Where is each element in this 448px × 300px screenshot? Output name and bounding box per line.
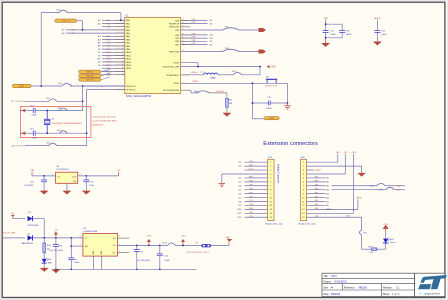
junction +3V3 first <box>148 245 150 247</box>
wire bottom ground rail <box>56 268 197 270</box>
svg-text:NRST: NRST <box>193 81 199 83</box>
junction NRST top <box>252 82 254 84</box>
wire A5 to PB6 <box>332 185 377 187</box>
svg-text:17: 17 <box>122 70 124 72</box>
wire CN4 pin15 D13 <box>307 216 362 218</box>
wire net PB4 <box>181 34 208 36</box>
tag MCO <box>12 84 32 87</box>
svg-text:(A MU0527): (A MU0527) <box>93 124 104 127</box>
capacitor C19 <box>85 176 87 180</box>
junction C6 branch <box>70 237 72 239</box>
svg-text:PA12: PA12 <box>249 176 253 179</box>
svg-text:3: 3 <box>52 174 53 176</box>
pin PF0/PC14 stub <box>83 85 125 87</box>
svg-text:+5V: +5V <box>54 230 58 232</box>
tag VCP_TX <box>55 19 77 22</box>
svg-text:Size:: Size: <box>324 288 329 290</box>
junction MCO/SB17 <box>40 85 42 87</box>
pin row PA6 left wire <box>102 39 125 41</box>
pin row PA8 left wire <box>102 45 125 47</box>
wire VCP_TX to PA3 row <box>77 20 83 22</box>
wire C14 to bottom rail <box>55 246 57 269</box>
svg-text:PB8/VOS3: PB8/VOS3 <box>169 51 180 53</box>
svg-text:SB14: SB14 <box>225 48 230 50</box>
svg-text:11: 11 <box>122 51 124 53</box>
tag NRST <box>264 117 280 120</box>
svg-text:Sheet:: Sheet: <box>383 293 390 296</box>
pin row extra left wire <box>102 71 125 73</box>
svg-text:PF0/PC14: PF0/PC14 <box>126 86 136 88</box>
solder bridge SB17 <box>59 10 67 12</box>
ground bottom rail <box>51 269 60 273</box>
pin NC stub <box>118 252 130 254</box>
wire CN3 pin 15 <box>245 216 268 218</box>
wire R22 to LD2 <box>43 253 45 259</box>
svg-text:+5V_ST_LINK: +5V_ST_LINK <box>3 232 17 234</box>
wire EN link <box>71 245 83 247</box>
svg-text:BOOT0/PB8-PB0: BOOT0/PB8-PB0 <box>163 90 180 92</box>
svg-text:C11: C11 <box>330 31 333 33</box>
junction D3/R22 <box>43 237 45 239</box>
svg-text:100nF: 100nF <box>164 260 170 262</box>
svg-text:PG: PG <box>113 238 116 240</box>
regulator U4 <box>56 172 78 183</box>
svg-text:C12: C12 <box>30 106 33 108</box>
svg-text:10uF: 10uF <box>89 185 94 187</box>
svg-text:PB6: PB6 <box>397 185 401 187</box>
wire CN3 pin 6 <box>245 181 268 183</box>
svg-text:PA12: PA12 <box>126 58 132 61</box>
pin row PA13 left wire <box>102 61 125 63</box>
wire net PB3 to LED <box>181 29 223 31</box>
svg-text:D11: D11 <box>210 38 214 40</box>
svg-text:4.7pF: 4.7pF <box>32 138 38 140</box>
svg-text:8: 8 <box>123 41 124 43</box>
capacitor C15 <box>267 101 269 106</box>
svg-text:100nF: 100nF <box>330 34 336 36</box>
svg-text:Revision:: Revision: <box>383 288 393 290</box>
wire C10 to rail <box>159 256 161 270</box>
svg-text:100nF: 100nF <box>381 34 387 36</box>
svg-text:PA1: PA1 <box>315 199 318 202</box>
svg-text:10uF/25V: 10uF/25V <box>24 185 33 187</box>
pin row PA12 left wire <box>102 58 125 60</box>
capacitor C11 <box>323 30 329 32</box>
svg-text:PA9: PA9 <box>249 160 252 163</box>
solder bridge SB16 <box>377 183 385 185</box>
svg-text:STPS2L30A: STPS2L30A <box>27 224 38 227</box>
wire cap group bottom link <box>325 32 327 37</box>
capacitor C14b <box>374 30 380 32</box>
ground AVDD cap <box>373 42 382 46</box>
junction VDD <box>197 66 199 68</box>
wire CN3 pin 14 <box>245 212 268 214</box>
svg-text:C13: C13 <box>346 31 349 33</box>
junction C18 <box>43 175 45 177</box>
svg-text:NRST: NRST <box>316 170 322 172</box>
wire net VDD rail <box>181 62 199 64</box>
svg-text:2: 2 <box>123 22 124 24</box>
svg-text:SB4: SB4 <box>58 83 62 85</box>
svg-text:SB6: SB6 <box>46 98 50 100</box>
wire NRST net left riser <box>252 83 254 119</box>
red option box <box>20 106 91 137</box>
svg-text:PA10: PA10 <box>126 51 132 54</box>
svg-text:PF0 /PC14: PF0 /PC14 <box>16 101 25 103</box>
wire CN3 pin 10 <box>245 197 268 199</box>
solder bridge SB14 <box>223 49 239 51</box>
svg-text:Vout: Vout <box>72 176 76 179</box>
svg-text:closed for U01, U05, U410: closed for U01, U05, U410 <box>93 117 117 119</box>
wire CN4 pin 12 A0 <box>307 204 326 206</box>
svg-text:PB7: PB7 <box>397 189 401 191</box>
wire U4 out <box>78 175 119 177</box>
svg-text:100nF: 100nF <box>346 34 352 36</box>
junction cap row left <box>252 102 254 104</box>
wire SWCLK to pin <box>101 73 110 75</box>
svg-text:PA13: PA13 <box>126 61 132 64</box>
svg-text:MCO: MCO <box>19 86 24 88</box>
ST logo <box>418 275 447 289</box>
wire BOOT0 down <box>226 93 228 99</box>
svg-text:1: 1 <box>80 244 81 246</box>
wire VIN to U4 <box>32 175 56 177</box>
svg-text:NX3215SA-32.768K-EXS00A-MU0052: NX3215SA-32.768K-EXS00A-MU00527 <box>52 122 82 125</box>
junction PA3 <box>82 29 84 31</box>
svg-text:VDD: VDD <box>226 237 231 239</box>
wire CN4 pin1 VIN <box>307 161 338 163</box>
wire CN4 pin 8 A4 <box>307 189 326 191</box>
off-sheet arrow OSC_OUT <box>21 131 26 135</box>
pin row PA11 left wire <box>102 55 125 57</box>
svg-text:VIN: VIN <box>336 152 340 154</box>
capacitor C6 <box>68 257 74 259</box>
svg-text:SB8: SB8 <box>46 143 50 145</box>
svg-text:NUCLEO32: NUCLEO32 <box>335 281 348 283</box>
wire CN3 pin 8 <box>245 189 268 191</box>
junction crystal row2 <box>46 132 48 134</box>
pin row PA14 left wire <box>102 64 125 66</box>
inductor L1 BEAD <box>204 73 218 75</box>
svg-text:Reference:: Reference: <box>344 287 356 290</box>
svg-text:AVDD: AVDD <box>357 196 363 199</box>
off-sheet connector arrow PB3 <box>259 28 267 32</box>
svg-text:1uF_X5R_0603: 1uF_X5R_0603 <box>137 260 150 262</box>
junction C9 top <box>136 245 138 247</box>
svg-text:PB1: PB1 <box>249 192 253 194</box>
svg-text:Extension connectors: Extension connectors <box>263 141 318 147</box>
solder bridge SB19 <box>234 72 242 74</box>
svg-text:VIN: VIN <box>30 170 34 172</box>
svg-text:14: 14 <box>122 61 124 63</box>
svg-text:VO: VO <box>113 245 116 247</box>
junction EN <box>70 245 72 247</box>
svg-text:SWDIO: SWDIO <box>86 72 93 74</box>
svg-text:SB16: SB16 <box>370 185 375 187</box>
svg-text:+3V3: +3V3 <box>146 236 152 238</box>
wire net PB6 <box>181 40 208 42</box>
svg-text:VDDA/VREF+: VDDA/VREF+ <box>166 74 180 77</box>
junction rail C14 <box>55 269 57 271</box>
ground at button <box>286 103 288 106</box>
resistor R31 <box>226 99 229 108</box>
svg-text:PA5: PA5 <box>315 187 318 190</box>
solder bridge SB on VO <box>168 243 176 245</box>
pin row PA1 left wire <box>102 23 125 25</box>
svg-text:100nF: 100nF <box>266 108 272 110</box>
svg-text:A1: A1 <box>325 200 328 203</box>
svg-text:BOOT0: BOOT0 <box>216 91 224 93</box>
svg-text:GND: GND <box>101 250 103 255</box>
svg-text:SB19: SB19 <box>232 71 237 73</box>
wire CN4 pin4 +5V <box>307 173 346 175</box>
solder bridge SB8 <box>49 143 57 145</box>
wire to R23 <box>362 248 372 250</box>
wire LED anode up <box>385 232 387 238</box>
capacitor C13b <box>339 30 345 32</box>
wire after L1 <box>218 74 234 76</box>
wire net PB1 <box>181 23 208 25</box>
svg-text:C14: C14 <box>381 31 384 33</box>
title block logo divider <box>414 273 416 296</box>
junction rail C10 <box>159 269 161 271</box>
junction PF1 riser <box>86 132 88 134</box>
ground under R31 <box>223 113 232 117</box>
svg-text:RED: RED <box>48 262 53 264</box>
wire CN3 pin 13 <box>245 208 268 210</box>
svg-text:GND: GND <box>93 250 95 255</box>
svg-text:7: 7 <box>123 38 124 40</box>
svg-text:PB5: PB5 <box>249 212 253 214</box>
svg-text:MCU_32pinsLQFP32: MCU_32pinsLQFP32 <box>126 94 151 98</box>
wire cap group top link <box>326 23 343 25</box>
wire R31 to ground <box>226 107 228 113</box>
diode D3 <box>28 216 33 221</box>
junction +5V arrow <box>55 237 57 239</box>
wire SWDIO to pin <box>101 70 110 72</box>
svg-text:SB18: SB18 <box>162 243 167 245</box>
junction +3V3 second <box>182 245 184 247</box>
ground CN3 <box>219 182 225 184</box>
junction cap group top <box>325 23 327 25</box>
wire LD2 to ground <box>43 263 45 268</box>
solder bridge SB15 vertical <box>359 230 361 235</box>
svg-text:NRST: NRST <box>249 169 255 171</box>
ground CN4 <box>357 173 366 177</box>
ground LD2 <box>40 268 49 272</box>
wire net PB8/VOS3 <box>181 51 223 53</box>
pin row PA3 left wire <box>66 29 125 31</box>
connector CN3 <box>268 159 274 220</box>
tag SWDIO <box>78 70 101 73</box>
wire net PB5 <box>181 37 208 39</box>
svg-text:SB1: SB1 <box>194 91 197 93</box>
svg-text:PA6: PA6 <box>315 183 318 186</box>
capacitor C18 <box>43 176 45 180</box>
wire C6/EN branch <box>70 238 72 258</box>
svg-text:15: 15 <box>122 64 124 66</box>
wire R23 to LED <box>377 248 386 250</box>
capacitor C12 <box>32 108 34 113</box>
ground C19 <box>82 191 91 195</box>
off-sheet arrow OSC_IN <box>21 109 26 113</box>
svg-text:PA0: PA0 <box>315 203 318 206</box>
svg-text:MB1180: MB1180 <box>359 288 368 290</box>
wire net PF0 row <box>25 100 49 102</box>
svg-text:JP1: JP1 <box>195 243 198 245</box>
power flag +5V out <box>118 172 120 176</box>
wire C19 to ground <box>85 182 87 191</box>
wire JP1 to VDD flag <box>211 244 229 246</box>
svg-text:PB6: PB6 <box>249 188 253 190</box>
svg-text:SB3: SB3 <box>363 233 367 235</box>
pin row PA15 left wire <box>102 67 125 69</box>
svg-text:12: 12 <box>122 54 124 56</box>
off-sheet connector arrow PB8 <box>259 50 267 54</box>
wire net PB0 <box>181 19 208 21</box>
svg-text:SB17: SB17 <box>56 10 61 12</box>
ground U4 tab <box>62 191 71 195</box>
power +3V3 second <box>182 242 184 245</box>
wire button top <box>253 82 288 84</box>
svg-text:PA4: PA4 <box>315 191 318 194</box>
wire SB17 drop to PA0 <box>120 13 122 21</box>
svg-text:Project:: Project: <box>324 280 332 283</box>
svg-text:Vin: Vin <box>57 177 60 179</box>
power +3V3 first <box>148 242 150 245</box>
svg-text:+5V: +5V <box>117 170 121 172</box>
wire VCP_RX to pin <box>101 77 110 80</box>
pin row PA0 left wire <box>102 19 125 21</box>
solder bridge SB15 <box>223 28 239 30</box>
svg-text:Header 15X1_male: Header 15X1_male <box>298 223 316 225</box>
LED LD3 green <box>383 239 388 243</box>
pin row PA10 left wire <box>102 51 125 53</box>
junction C10 top <box>159 245 161 247</box>
svg-text:AVDD: AVDD <box>375 17 381 20</box>
wire CN3 pin 3 <box>245 169 268 171</box>
pin PF1/PC15 stub <box>87 89 125 91</box>
svg-text:PB3: PB3 <box>315 216 319 218</box>
wire CN4 pin13 AREF <box>307 208 358 210</box>
wire CN3 GND pin4 <box>222 173 268 175</box>
svg-text:PA10: PA10 <box>249 164 253 167</box>
svg-text:BAT60JFILM: BAT60JFILM <box>22 242 33 245</box>
wire net SB17 vertical <box>40 13 42 86</box>
junction VDD right <box>259 66 261 68</box>
wire CN4 pin14 +3V3 <box>307 212 354 214</box>
svg-text:SB9: SB9 <box>57 107 61 109</box>
junction C19 <box>85 175 87 177</box>
wire CN3 pin 5 <box>245 177 268 179</box>
svg-text:10: 10 <box>122 48 124 50</box>
solder bridge SB on row2 <box>59 131 67 133</box>
svg-text:18: 18 <box>122 73 124 75</box>
pin row PA9 left wire <box>102 48 125 50</box>
power AVDD tap <box>357 200 359 210</box>
wire ST-LINK 5V row <box>3 237 25 239</box>
svg-text:AREF: AREF <box>325 208 332 211</box>
wire net PB7 <box>181 44 208 46</box>
pin PG stub <box>118 237 130 239</box>
svg-text:8: 8 <box>80 236 81 238</box>
svg-text:6: 6 <box>123 35 124 37</box>
svg-text:1: 1 <box>68 187 69 189</box>
wire CN3 pin 7 <box>245 185 268 187</box>
push button B1 <box>266 79 277 80</box>
svg-text:SB10: SB10 <box>57 130 62 132</box>
wire AVDD cap to ground <box>376 32 378 41</box>
svg-text:6/5/2015: 6/5/2015 <box>331 294 341 296</box>
solder bridge SB4 <box>62 84 72 86</box>
wire CN3 pin 11 <box>245 201 268 203</box>
capacitor C10 <box>159 245 161 254</box>
junction rail C6 <box>71 269 73 271</box>
svg-text:+3V3: +3V3 <box>181 236 187 238</box>
svg-text:Green: Green <box>390 242 396 244</box>
ground C18 <box>40 191 49 195</box>
junction PA0 <box>120 19 122 21</box>
power +3V3 at LED <box>383 225 389 229</box>
svg-text:PF1/PC15: PF1/PC15 <box>126 90 136 92</box>
svg-text:16: 16 <box>122 67 124 69</box>
wire U4 tab to ground <box>66 183 68 190</box>
svg-text:100nF: 100nF <box>74 262 80 264</box>
wire CN4 pin 11 A1 <box>307 201 326 203</box>
wire net NRST <box>181 82 253 84</box>
svg-text:PB0: PB0 <box>249 181 253 183</box>
svg-text:PB7: PB7 <box>249 184 253 186</box>
svg-text:NRST: NRST <box>269 118 275 120</box>
resistor R23 <box>372 248 377 251</box>
svg-text:4.7pF: 4.7pF <box>32 115 38 117</box>
svg-text:VDD: VDD <box>323 18 328 20</box>
wire PF1 riser <box>86 90 88 146</box>
wire 5V to D3 <box>13 218 25 220</box>
svg-text:9: 9 <box>123 45 124 47</box>
diode D4 <box>28 235 33 240</box>
wire CN4 pin 6 A6 <box>307 181 326 183</box>
svg-text:PA2: PA2 <box>315 176 318 179</box>
title block row lines <box>322 277 415 279</box>
svg-text:PA11: PA11 <box>249 207 253 210</box>
power +5V on rail <box>55 235 57 238</box>
capacitor C13 <box>32 131 34 136</box>
wire net SB17 horizontal <box>41 12 59 14</box>
crystal X1 <box>46 111 48 120</box>
svg-text:PF1 /PC15: PF1 /PC15 <box>16 145 25 147</box>
wire CN3 pin 9 <box>245 193 268 195</box>
junction rail C9 <box>136 269 138 271</box>
svg-text:3: 3 <box>119 236 120 238</box>
wire CN4 pin 5 A7 <box>307 177 326 179</box>
junction crystal row1 <box>46 110 48 112</box>
svg-text:PB1/NPOR: PB1/NPOR <box>169 24 180 26</box>
junction cap group bottom <box>325 37 327 39</box>
svg-text:.augmented: .augmented <box>423 292 440 296</box>
wire C9 to rail <box>136 251 138 269</box>
regulator U3 <box>83 234 118 257</box>
power VDD label <box>267 65 270 68</box>
title block column lines <box>341 284 343 290</box>
wire net BOOT0 <box>181 89 192 91</box>
svg-text:Title:: Title: <box>324 275 329 278</box>
svg-text:SWCLK: SWCLK <box>86 76 94 78</box>
wire VDD down to VDDA bead <box>259 67 261 75</box>
svg-text:MCU: MCU <box>332 276 338 278</box>
wire net VDDA <box>181 74 204 76</box>
wire CN4 pin3 NRST <box>307 169 315 171</box>
